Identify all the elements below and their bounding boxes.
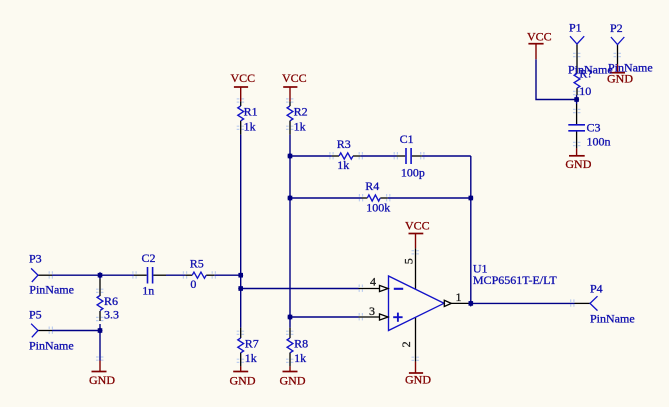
op-amp plus sign [393,313,402,322]
capacitor C3 plates [568,124,585,126]
svg-text:3.3: 3.3 [104,308,119,322]
resistor R2 pins [289,101,291,106]
capacitor C1 plates [405,148,407,164]
resistor R7 zigzag [238,338,244,353]
svg-text:0: 0 [190,277,196,291]
wire column x=240.7 [240,135,242,328]
GND bar R8 [283,371,298,373]
svg-text:P4: P4 [590,281,603,295]
resistor R1 pins [240,101,242,106]
wire column x=290 [289,135,291,328]
svg-text:100p: 100p [401,166,425,180]
pin direction arrow pin4 [380,285,389,291]
pin P1 / resistor R? pins [576,44,578,73]
wire P3 row [52,274,134,276]
resistor R3 pins [332,155,339,157]
GND stem P2 [617,64,619,73]
svg-text:P5: P5 [29,308,42,322]
node pin4 branch [238,286,243,291]
svg-text:P2: P2 [610,21,623,35]
wire row R3/C1 [290,155,332,157]
svg-text:100k: 100k [366,201,390,215]
node output [469,301,474,306]
node VCC/R?/C3 [574,97,579,102]
svg-text:P1: P1 [569,20,582,34]
pin fork P5 [31,324,38,338]
node P3/R6 [98,273,103,278]
capacitor C2 pins [134,274,147,276]
GND stem op-amp [415,362,417,373]
pin P4 [575,302,591,304]
VCC bar top right [528,43,543,45]
op-amp minus sign [394,288,403,290]
svg-text:R8: R8 [294,336,308,350]
node R3 row left [288,154,293,159]
GND bar P5 node [92,371,107,373]
op-amp pin 1 [451,302,471,304]
svg-text:PinName: PinName [29,338,74,352]
capacitor C1 pins [397,155,406,157]
capacitor C2 plates [147,267,149,284]
GND bar R7 [233,371,248,373]
GND stem P5 node [99,361,101,372]
node pin3 branch [288,315,293,320]
svg-text:R3: R3 [337,137,351,151]
wire P5 node to GND [99,331,101,361]
GND bar P2 [610,72,625,74]
wire to pin 3 [290,316,359,318]
wire feedback vertical [470,156,472,303]
VCC stem R1 [240,87,242,101]
node P5/R6 [98,328,103,333]
svg-text:PinName: PinName [29,282,74,296]
pin P5 [38,330,52,332]
wire output to P4 [471,302,575,304]
resistor R3 zigzag [339,153,353,159]
wire to pin 4 [241,288,359,290]
svg-text:VCC: VCC [405,219,430,233]
resistor R5 pins [185,274,192,276]
svg-text:R6: R6 [104,294,118,308]
svg-text:1k: 1k [294,351,306,365]
op-amp pin 5 [415,248,417,289]
wire R5 to node [214,274,240,276]
pin fork P4 [590,296,598,310]
svg-text:GND: GND [230,374,256,388]
svg-text:VCC: VCC [527,30,552,44]
op-amp U1 triangle [389,276,445,331]
svg-text:GND: GND [89,373,115,387]
resistor R6 pins [99,279,101,296]
svg-text:PinName: PinName [590,311,635,325]
svg-text:MCP6561T-E/LT: MCP6561T-E/LT [473,273,557,287]
svg-text:VCC: VCC [231,71,256,85]
svg-text:C2: C2 [142,251,156,265]
svg-text:1n: 1n [142,284,154,298]
resistor R7 pins [240,328,242,338]
op-amp pin 3 [359,316,380,318]
pin fork P1 [570,36,584,44]
svg-text:100n: 100n [587,134,611,148]
resistor R? zigzag [574,73,580,88]
GND bar op-amp [409,372,423,374]
resistor R2 zigzag [287,106,293,121]
svg-text:R1: R1 [244,104,258,118]
VCC bar op-amp [409,233,424,235]
svg-text:3: 3 [369,304,375,318]
wire C2 to R5 [166,274,185,276]
svg-text:R2: R2 [294,104,308,118]
VCC bar R1 [234,86,248,88]
wire P5 row [52,330,100,332]
node R5 out [238,273,243,278]
wire R6 node stubs [99,275,101,279]
svg-text:GND: GND [565,157,591,171]
svg-text:R5: R5 [190,256,204,270]
svg-text:1k: 1k [337,158,349,172]
node R4 row left [288,196,293,201]
VCC stem op-amp [415,234,417,249]
svg-text:R7: R7 [245,336,259,350]
resistor R4 zigzag [367,195,380,201]
GND bar C3 [569,155,585,157]
svg-text:2: 2 [399,341,413,347]
op-amp pin 2 [415,317,417,362]
GND stem C3 [576,148,578,155]
pin fork P2 [611,37,624,45]
op-amp pin 4 [359,288,380,290]
pin direction arrow pin1 [444,300,451,306]
svg-text:P3: P3 [29,251,42,265]
pin direction arrow pin3 [380,314,389,320]
VCC stem R2 [289,87,291,101]
VCC bar R2 [283,86,297,88]
resistor R8 zigzag [287,338,293,353]
pin P2 [617,45,619,65]
resistor R6 zigzag [97,296,103,311]
svg-text:C1: C1 [400,132,414,146]
GND stem R8 [289,366,291,371]
wire node to C3 [576,95,578,104]
wire row R4 [290,197,362,199]
capacitor C3 pins [576,104,578,124]
svg-text:C3: C3 [587,121,601,135]
svg-text:GND: GND [280,374,306,388]
resistor R1 zigzag [238,106,244,121]
svg-text:R4: R4 [365,179,379,193]
svg-text:GND: GND [405,373,431,387]
svg-text:PinName: PinName [568,63,613,77]
VCC stem top right [535,44,537,60]
svg-text:1: 1 [456,290,462,304]
svg-text:VCC: VCC [282,71,307,85]
wire VCC top right [536,59,577,99]
pin connection markers (light blue) [49,53,621,362]
svg-text:1k: 1k [244,120,256,134]
GND stem R7 [240,366,242,371]
svg-text:1k: 1k [245,351,257,365]
resistor R5 zigzag [192,272,206,278]
svg-text:5: 5 [401,258,415,264]
svg-text:4: 4 [370,275,376,289]
svg-text:PinName: PinName [608,60,653,74]
pin fork P3 [31,268,38,282]
node R4 row right [469,196,474,201]
resistor R8 pins [289,328,291,338]
svg-text:10: 10 [579,84,591,98]
resistor R4 pins [362,197,368,199]
svg-text:1k: 1k [294,120,306,134]
pin P3 [38,274,52,276]
